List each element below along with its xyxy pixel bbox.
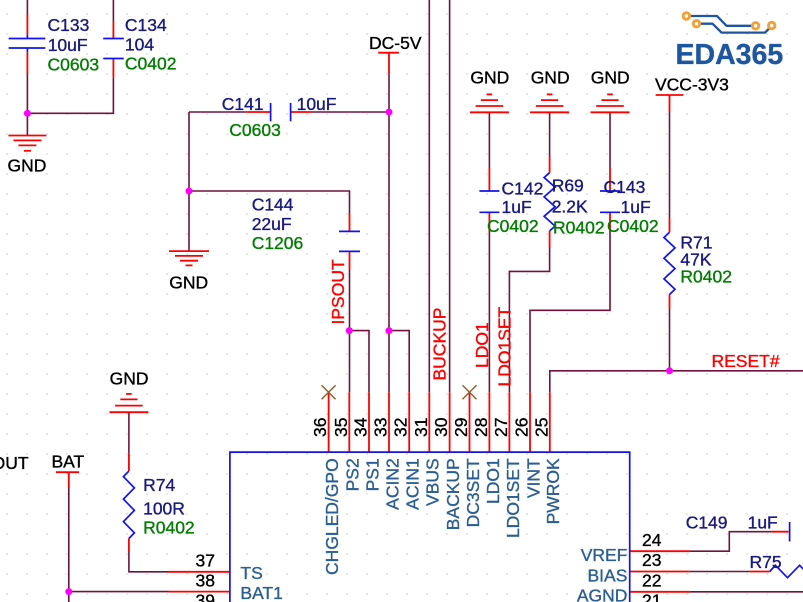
svg-text:C141: C141 (222, 94, 264, 114)
svg-text:TS: TS (240, 563, 262, 583)
svg-text:1uF: 1uF (502, 197, 532, 217)
svg-text:LDO1SET: LDO1SET (495, 306, 515, 386)
svg-text:2.2K: 2.2K (552, 197, 588, 217)
svg-text:VBUS: VBUS (423, 458, 443, 506)
svg-text:24: 24 (642, 530, 662, 550)
svg-text:R75: R75 (750, 552, 782, 572)
svg-text:BUCKUP: BUCKUP (430, 308, 450, 381)
svg-text:26: 26 (512, 418, 532, 437)
svg-text:EDA365: EDA365 (676, 39, 784, 71)
svg-text:RESET#: RESET# (712, 351, 780, 371)
svg-text:10uF: 10uF (48, 35, 88, 55)
svg-text:GND: GND (591, 68, 630, 88)
svg-text:C1206: C1206 (252, 233, 304, 253)
svg-text:C0402: C0402 (607, 216, 659, 236)
svg-text:34: 34 (351, 417, 371, 437)
svg-text:DC-5V: DC-5V (369, 33, 422, 53)
svg-text:39: 39 (196, 591, 215, 602)
svg-text:33: 33 (371, 418, 391, 437)
svg-text:30: 30 (431, 417, 451, 437)
svg-text:C143: C143 (604, 177, 646, 197)
svg-text:31: 31 (411, 418, 431, 437)
svg-text:R0402: R0402 (143, 518, 195, 538)
svg-text:GND: GND (169, 273, 208, 293)
svg-text:R69: R69 (552, 176, 584, 196)
svg-text:22uF: 22uF (252, 214, 292, 234)
svg-text:1uF: 1uF (748, 512, 778, 532)
svg-text:28: 28 (471, 418, 491, 437)
svg-text:BAT1: BAT1 (240, 583, 282, 602)
svg-text:10uF: 10uF (297, 94, 337, 114)
svg-text:21: 21 (642, 591, 661, 602)
svg-text:ACIN2: ACIN2 (382, 458, 402, 510)
svg-text:32: 32 (391, 418, 411, 437)
svg-text:C0603: C0603 (229, 120, 281, 140)
svg-text:38: 38 (196, 570, 215, 590)
svg-text:C149: C149 (686, 512, 728, 532)
svg-text:IPSOUT: IPSOUT (0, 453, 29, 473)
svg-text:1uF: 1uF (621, 197, 651, 217)
svg-text:PS2: PS2 (343, 458, 363, 491)
svg-text:CHGLED/GPO: CHGLED/GPO (322, 458, 342, 575)
svg-text:22: 22 (642, 570, 661, 590)
svg-text:37: 37 (196, 551, 215, 571)
svg-text:C133: C133 (48, 15, 90, 35)
svg-text:GND: GND (531, 68, 570, 88)
svg-text:R0402: R0402 (680, 267, 732, 287)
svg-text:104: 104 (125, 34, 154, 54)
svg-text:BACKUP: BACKUP (443, 458, 463, 530)
svg-text:PS1: PS1 (362, 458, 382, 491)
svg-text:IPSOUT: IPSOUT (328, 259, 348, 324)
svg-text:C144: C144 (252, 194, 294, 214)
svg-text:GND: GND (8, 156, 47, 176)
svg-text:29: 29 (451, 418, 471, 437)
svg-text:R74: R74 (143, 475, 175, 495)
svg-text:23: 23 (642, 550, 661, 570)
svg-text:LDO1SET: LDO1SET (503, 458, 523, 538)
svg-text:BAT: BAT (52, 452, 85, 472)
svg-text:C142: C142 (502, 179, 544, 199)
svg-text:GND: GND (470, 68, 509, 88)
svg-text:C0402: C0402 (125, 54, 177, 74)
svg-text:DC3SET: DC3SET (463, 458, 483, 527)
svg-text:VINT: VINT (523, 458, 543, 498)
svg-text:VREF: VREF (581, 545, 628, 565)
svg-text:LDO1: LDO1 (472, 322, 492, 368)
svg-text:25: 25 (531, 418, 551, 437)
svg-text:VCC-3V3: VCC-3V3 (655, 75, 729, 95)
svg-text:BIAS: BIAS (588, 565, 628, 585)
svg-text:100R: 100R (143, 499, 185, 519)
svg-text:ACIN1: ACIN1 (403, 458, 423, 510)
svg-text:36: 36 (310, 418, 330, 437)
svg-text:27: 27 (491, 418, 511, 437)
svg-text:C0402: C0402 (487, 216, 539, 236)
svg-text:PWROK: PWROK (543, 458, 563, 524)
svg-text:LDO1: LDO1 (483, 458, 503, 504)
svg-text:C134: C134 (125, 15, 167, 35)
svg-text:C0603: C0603 (48, 54, 100, 74)
svg-text:35: 35 (331, 418, 351, 437)
svg-text:GND: GND (110, 369, 149, 389)
svg-text:R0402: R0402 (553, 218, 605, 238)
svg-text:AGND: AGND (577, 586, 628, 602)
